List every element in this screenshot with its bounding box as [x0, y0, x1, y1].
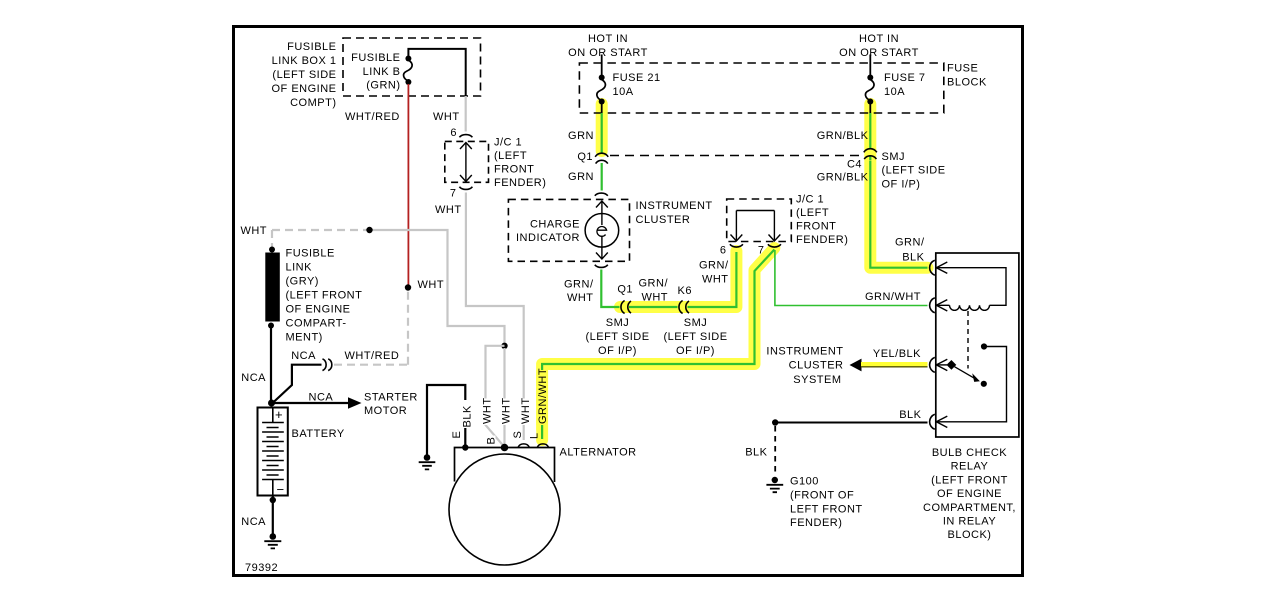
label B rotated — [485, 436, 496, 446]
wire BLK dashed to G100 — [774, 426, 776, 476]
wire BLK (alternator E to ground) — [427, 385, 465, 455]
svg-text:10A: 10A — [884, 86, 905, 98]
svg-text:FENDER): FENDER) — [790, 517, 842, 529]
svg-text:FUSIBLE: FUSIBLE — [286, 248, 335, 260]
svg-text:WHT: WHT — [501, 397, 513, 424]
svg-text:WHT: WHT — [482, 397, 494, 424]
svg-text:FUSE 7: FUSE 7 — [884, 72, 926, 84]
svg-text:LINK B: LINK B — [363, 66, 401, 78]
label BLK rotated — [461, 400, 472, 428]
pin 7 — [459, 187, 472, 190]
svg-text:(LEFT: (LEFT — [796, 207, 829, 219]
wire YEL/BLK — [861, 362, 928, 367]
svg-text:HOT IN: HOT IN — [588, 33, 628, 45]
wire WHT/RED (red, fusible link B down) — [407, 84, 409, 287]
label WHT rotated 2 — [499, 399, 511, 426]
svg-text:(GRY): (GRY) — [286, 276, 319, 288]
svg-text:−: − — [277, 482, 285, 497]
wire WHT (junction to alternator B) — [503, 348, 505, 447]
wire WHT (J/C 1 pin 7 to alternator S) — [466, 193, 524, 441]
svg-text:ON OR START: ON OR START — [568, 47, 648, 59]
relay actuator dashed — [967, 311, 969, 369]
svg-text:FRONT: FRONT — [494, 164, 534, 176]
svg-text:GRN/BLK: GRN/BLK — [817, 130, 869, 142]
svg-text:RELAY: RELAY — [951, 461, 989, 473]
wire GRN/BLK (C4 to relay) — [870, 161, 927, 268]
node G100 junction dot — [772, 419, 778, 425]
relay switch — [937, 343, 1007, 421]
svg-text:MENT): MENT) — [286, 332, 323, 344]
pin 7 connector — [768, 244, 781, 247]
relay terminal YEL/BLK — [930, 357, 935, 372]
svg-text:NCA: NCA — [241, 516, 266, 528]
svg-text:G100: G100 — [790, 476, 819, 488]
svg-text:J/C 1: J/C 1 — [796, 194, 824, 206]
svg-text:STARTER: STARTER — [364, 392, 418, 404]
svg-text:IN RELAY: IN RELAY — [943, 516, 996, 528]
svg-text:OF ENGINE: OF ENGINE — [937, 488, 1002, 500]
svg-text:K6: K6 — [678, 285, 692, 297]
svg-text:SMJ: SMJ — [684, 317, 708, 329]
svg-text:OF I/P): OF I/P) — [676, 345, 715, 357]
battery — [258, 407, 288, 497]
svg-text:INDICATOR: INDICATOR — [516, 232, 580, 244]
svg-text:SMJ: SMJ — [882, 151, 906, 163]
svg-text:L: L — [529, 432, 541, 439]
svg-text:MOTOR: MOTOR — [364, 405, 407, 417]
svg-text:(GRN): (GRN) — [366, 80, 400, 92]
svg-text:LEFT FRONT: LEFT FRONT — [790, 503, 863, 515]
wire GRN/WHT highlighted (J/C pin 7 to alternator L) — [542, 248, 774, 440]
wire GRN/WHT (cluster to Q1 splice) — [601, 270, 619, 308]
svg-text:GRN/WHT: GRN/WHT — [537, 368, 549, 424]
svg-text:+: + — [275, 407, 283, 422]
ground battery — [264, 533, 281, 548]
svg-text:COMPART-: COMPART- — [286, 318, 347, 330]
terminal S connector — [518, 444, 529, 447]
svg-text:GRN: GRN — [568, 171, 594, 183]
fuse F21 — [597, 55, 606, 114]
node battery junction — [268, 400, 275, 407]
svg-text:BLK: BLK — [462, 405, 474, 427]
svg-text:BLOCK): BLOCK) — [948, 529, 992, 541]
svg-text:E: E — [451, 431, 463, 439]
instrument cluster (dashed box) — [508, 199, 629, 261]
svg-text:(LEFT FRONT: (LEFT FRONT — [931, 474, 1008, 486]
fusible link B element — [404, 49, 466, 96]
wire WHT branch (to alternator B diagonal) — [486, 346, 505, 447]
pin 6 — [459, 135, 472, 138]
ground (alternator E) — [419, 454, 436, 469]
svg-text:J/C 1: J/C 1 — [494, 137, 522, 149]
svg-text:FUSE 21: FUSE 21 — [613, 72, 661, 84]
svg-text:OF I/P): OF I/P) — [882, 179, 921, 191]
fusible link B label — [351, 52, 400, 92]
charge indicator lamp — [585, 201, 619, 259]
label BULB CHECK RELAY — [923, 447, 1016, 541]
svg-text:WHT: WHT — [641, 292, 668, 304]
svg-text:79392: 79392 — [245, 562, 278, 574]
svg-text:6: 6 — [720, 245, 727, 257]
relay terminal GRN/BLK — [930, 260, 935, 275]
terminal B dot — [501, 444, 509, 452]
svg-text:ALTERNATOR: ALTERNATOR — [560, 447, 637, 459]
svg-text:BLK: BLK — [902, 252, 924, 264]
svg-text:(LEFT: (LEFT — [494, 150, 527, 162]
svg-text:OF ENGINE: OF ENGINE — [271, 83, 336, 95]
svg-text:LINK BOX 1: LINK BOX 1 — [272, 55, 337, 67]
svg-text:GRN/WHT: GRN/WHT — [865, 291, 921, 303]
fusible link box 1 (dashed box) — [343, 38, 481, 96]
wire GRN (fuse 21 to Q1) — [601, 113, 603, 153]
fusible link GRY element — [265, 247, 280, 329]
svg-text:INSTRUMENT: INSTRUMENT — [766, 346, 843, 358]
junction connector J/C 1 second (left front fender) — [720, 194, 849, 257]
svg-text:FUSIBLE: FUSIBLE — [351, 52, 400, 64]
svg-text:WHT/RED: WHT/RED — [345, 350, 400, 362]
svg-text:7: 7 — [450, 188, 457, 200]
svg-text:OF I/P): OF I/P) — [598, 345, 637, 357]
connector instrument cluster bottom — [595, 265, 608, 268]
wire GRN/BLK (fuse 7 to C4) — [869, 113, 871, 160]
ground G100 — [766, 477, 783, 492]
label WHT rotated 3 — [518, 399, 530, 426]
svg-text:YEL/BLK: YEL/BLK — [873, 348, 921, 360]
svg-text:BULB CHECK: BULB CHECK — [932, 447, 1007, 459]
svg-text:GRN/: GRN/ — [895, 237, 925, 249]
wire GRN/WHT (pin 7 to alternator L) — [542, 250, 774, 440]
wire GRN/WHT (Q1 to K6) — [629, 306, 678, 308]
svg-text:BLOCK: BLOCK — [947, 77, 987, 89]
svg-text:Q1: Q1 — [617, 284, 633, 296]
arrow starter motor — [348, 397, 362, 408]
wire GRN (Q1 to instrument cluster) — [601, 163, 603, 191]
svg-text:OF ENGINE: OF ENGINE — [286, 304, 351, 316]
wire WHT solid (to alternator B) — [370, 230, 505, 343]
node dot — [270, 497, 276, 503]
wire WHT/RED dashed — [334, 290, 408, 365]
svg-text:(LEFT SIDE: (LEFT SIDE — [882, 165, 946, 177]
svg-text:COMPARTMENT,: COMPARTMENT, — [923, 502, 1016, 514]
relay bulb check — [936, 253, 1019, 437]
svg-text:BLK: BLK — [899, 409, 921, 421]
relay terminal BLK — [930, 414, 935, 429]
svg-text:(FRONT OF: (FRONT OF — [790, 489, 854, 501]
wire GRN highlighted (fuse 21 to Q1) — [596, 104, 608, 151]
wire NCA to starter motor — [272, 402, 349, 404]
connector instrument cluster top — [595, 193, 608, 196]
node junction dot at B branch — [501, 343, 507, 349]
svg-text:BLK: BLK — [745, 447, 767, 459]
svg-text:BATTERY: BATTERY — [292, 428, 345, 440]
relay terminal GRN/WHT — [930, 298, 935, 313]
pin 6 connector — [730, 244, 743, 247]
svg-text:FRONT: FRONT — [796, 221, 836, 233]
svg-text:HOT IN: HOT IN — [859, 33, 899, 45]
svg-text:COMPT): COMPT) — [290, 97, 336, 109]
connector K6 splice — [679, 301, 683, 314]
wire GRN/BLK highlighted (fuse 7 through C4 to relay) — [870, 104, 927, 268]
fuse block (dashed box) — [579, 63, 943, 113]
svg-text:B: B — [486, 437, 498, 445]
wire GRN/WHT (K6 to J/C pin 6) — [688, 252, 737, 307]
connector C4 SMJ — [864, 149, 877, 153]
node junction dot — [366, 227, 372, 233]
svg-text:WHT: WHT — [435, 204, 462, 216]
wire battery negative — [272, 496, 274, 535]
wire BLK (G100 to relay) — [775, 422, 927, 424]
svg-text:CHARGE: CHARGE — [530, 219, 580, 231]
svg-text:FUSIBLE: FUSIBLE — [287, 41, 336, 53]
alternator — [449, 448, 560, 566]
svg-text:GRN/BLK: GRN/BLK — [817, 172, 869, 184]
svg-text:SMJ: SMJ — [606, 317, 630, 329]
relay coil — [937, 305, 990, 310]
connector Q1 (SMJ) — [595, 153, 608, 157]
wire GRN/WHT (pin 7 to relay) — [775, 250, 928, 306]
svg-text:WHT: WHT — [567, 292, 594, 304]
svg-text:WHT: WHT — [702, 274, 729, 286]
svg-text:SYSTEM: SYSTEM — [793, 374, 841, 386]
svg-text:WHT: WHT — [520, 397, 532, 424]
svg-text:(LEFT SIDE: (LEFT SIDE — [585, 331, 649, 343]
svg-text:(LEFT FRONT: (LEFT FRONT — [286, 290, 363, 302]
label L rotated — [528, 431, 537, 440]
svg-text:S: S — [512, 431, 524, 439]
svg-text:CLUSTER: CLUSTER — [636, 214, 691, 226]
svg-text:WHT: WHT — [418, 279, 445, 291]
border frame — [234, 27, 1023, 576]
svg-text:GRN/: GRN/ — [564, 279, 594, 291]
terminal L connector — [537, 444, 548, 447]
svg-text:FUSE: FUSE — [947, 63, 978, 75]
wire WHT dashed (left) — [272, 229, 370, 231]
wire GRN/WHT highlighted (Q1 splice to J/C pin 6) — [620, 251, 736, 307]
svg-text:INSTRUMENT: INSTRUMENT — [636, 200, 713, 212]
fusible link box 1 label — [271, 41, 336, 109]
svg-text:(LEFT SIDE: (LEFT SIDE — [663, 331, 727, 343]
junction connector J/C 1 (left front fender) — [445, 127, 547, 200]
connector terminal WHT/RED — [323, 359, 327, 371]
wire WHT dashed stub to fusible link GRY — [271, 230, 273, 248]
label WHT rotated 1 — [480, 399, 492, 426]
svg-text:NCA: NCA — [309, 392, 334, 404]
svg-text:10A: 10A — [613, 86, 634, 98]
fusible link GRY label — [286, 248, 363, 344]
svg-text:LINK: LINK — [286, 262, 313, 274]
svg-text:7: 7 — [758, 245, 765, 257]
terminal E dot — [462, 444, 468, 450]
svg-text:GRN/: GRN/ — [699, 260, 729, 272]
svg-text:GRN/: GRN/ — [639, 278, 669, 290]
relay internal wire from GRN/BLK terminal — [937, 268, 1006, 306]
node WHT junction dot — [405, 284, 411, 290]
label G100 — [790, 476, 863, 530]
svg-text:GRN: GRN — [568, 130, 594, 142]
svg-text:6: 6 — [450, 127, 457, 139]
svg-text:WHT/RED: WHT/RED — [345, 111, 400, 123]
wire WHT (fusible link B to J/C 1 pin 6) — [465, 96, 467, 132]
svg-text:Q1: Q1 — [577, 151, 593, 163]
svg-text:WHT: WHT — [433, 111, 460, 123]
wire dashed Q1 to C4 — [610, 155, 863, 157]
svg-text:NCA: NCA — [291, 350, 316, 362]
svg-text:(LEFT SIDE: (LEFT SIDE — [272, 69, 336, 81]
fuse F7 — [865, 55, 874, 114]
wire battery positive — [270, 328, 272, 403]
svg-text:FENDER): FENDER) — [796, 234, 848, 246]
label E rotated — [451, 428, 461, 440]
wire NCA to WHT/RED connector — [272, 365, 322, 404]
svg-text:NCA: NCA — [241, 372, 266, 384]
label GRN/WHT rotated — [536, 370, 548, 425]
svg-text:C4: C4 — [847, 159, 862, 171]
svg-text:FENDER): FENDER) — [494, 177, 546, 189]
svg-text:WHT: WHT — [240, 225, 267, 237]
connector Q1 splice (horizontal) — [621, 301, 625, 314]
svg-text:ON OR START: ON OR START — [839, 47, 919, 59]
arrow instrument cluster system — [850, 359, 862, 372]
label S rotated — [511, 430, 522, 440]
svg-text:CLUSTER: CLUSTER — [789, 360, 844, 372]
